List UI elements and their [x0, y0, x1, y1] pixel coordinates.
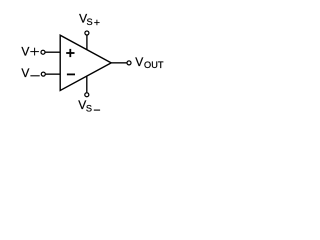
terminal circle VOUT	[127, 61, 131, 65]
svg-text:V: V	[21, 66, 29, 80]
svg-text:V: V	[135, 55, 143, 69]
wire VS- supply	[86, 76, 88, 93]
wire V- input	[46, 73, 61, 75]
svg-text:S: S	[86, 104, 92, 114]
op-amp plus (non-inverting) input marker	[66, 49, 74, 57]
label VS+ plus sign	[94, 20, 99, 26]
svg-text:V: V	[21, 44, 29, 58]
terminal circle VS+	[85, 31, 89, 35]
label V- dash	[30, 75, 39, 77]
terminal circle V-	[41, 72, 45, 76]
terminal circle V+	[41, 50, 45, 54]
terminal circle VS-	[85, 93, 89, 97]
label V+ plus sign	[30, 48, 39, 56]
wire VS+ supply	[86, 35, 88, 49]
op-amp minus (inverting) input marker	[67, 73, 75, 75]
op-amp U1 triangle body	[60, 35, 111, 90]
svg-text:OUT: OUT	[144, 60, 164, 70]
label VS- dash	[94, 109, 100, 111]
svg-text:S: S	[87, 17, 93, 27]
wire V+ input	[45, 51, 60, 53]
wire VOUT output	[111, 62, 126, 64]
